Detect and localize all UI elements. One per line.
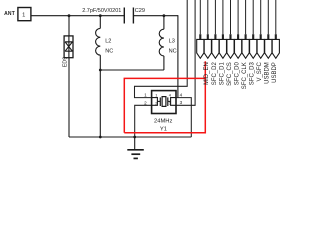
node junction L2 top <box>99 14 102 17</box>
wire down to ED9 <box>68 16 70 36</box>
node junction L2 bottom <box>99 69 102 72</box>
pin symbol 2 <box>204 39 211 58</box>
svg-text:SFC_CS: SFC_CS <box>227 62 233 86</box>
svg-text:1: 1 <box>155 93 157 98</box>
svg-text:SFC_CLK: SFC_CLK <box>242 62 248 89</box>
wire junction down to bottom wire <box>99 70 101 137</box>
wire down to L2 <box>99 16 101 29</box>
wire C29 right plate to corner <box>133 15 178 17</box>
pin symbol 8 <box>250 39 257 58</box>
connector pin row (11 pins) <box>200 0 275 39</box>
pin symbol 1 <box>197 39 204 58</box>
wire corner down to crystal pin4 lead <box>177 15 179 97</box>
pin symbol 6 <box>235 39 242 58</box>
svg-text:SFC_D0: SFC_D0 <box>235 62 241 86</box>
svg-text:ED9: ED9 <box>62 57 68 68</box>
pin symbol 5 <box>227 39 234 58</box>
wire L2 to junction <box>99 55 101 70</box>
wire XTAL line 2 from top to pin3 <box>176 0 195 105</box>
svg-text:1: 1 <box>22 12 25 18</box>
svg-text:2.7pF/50V/0201: 2.7pF/50V/0201 <box>82 8 121 14</box>
pin symbol 11 <box>272 39 279 58</box>
wire crystal pin4 to bottom wire <box>176 98 191 137</box>
inductor L2 <box>96 28 114 55</box>
svg-text:MID_EN: MID_EN <box>204 62 210 85</box>
svg-text:2: 2 <box>144 100 147 105</box>
node junction L3 top <box>163 14 166 17</box>
svg-text:V_SFC: V_SFC <box>257 62 263 82</box>
wire down to L3 <box>163 16 165 30</box>
inductor L3 <box>159 29 176 56</box>
svg-text:SFC_D3: SFC_D3 <box>250 62 256 86</box>
pin symbol 4 <box>219 39 226 58</box>
svg-text:C29: C29 <box>135 8 145 14</box>
node junction bottom wire at L2 <box>99 136 102 139</box>
svg-text:1: 1 <box>144 93 147 98</box>
wire ED9 down to bottom wire <box>68 58 70 137</box>
pin symbol 3 <box>212 39 219 58</box>
svg-text:USBDP: USBDP <box>272 62 278 83</box>
pin wires <box>200 0 275 34</box>
pin symbol 7 <box>242 39 249 58</box>
node junction at ED9 <box>68 14 71 17</box>
port P1 (ANT pad) <box>18 8 31 21</box>
wire L3 bottom <box>163 56 165 70</box>
node junction ground stem <box>133 136 136 139</box>
capacitor C29 <box>124 8 145 24</box>
svg-text:3: 3 <box>169 101 171 106</box>
pin symbol 10 <box>265 39 272 58</box>
pin stubs <box>200 34 275 39</box>
svg-text:L2: L2 <box>105 38 111 44</box>
svg-text:SFC_D2: SFC_D2 <box>212 62 218 86</box>
svg-text:4: 4 <box>180 92 183 97</box>
svg-text:NC: NC <box>105 49 113 55</box>
svg-text:24MHz: 24MHz <box>154 118 172 124</box>
svg-text:L3: L3 <box>169 38 175 44</box>
wire L2 bottom to L3 bottom <box>100 69 164 71</box>
svg-text:ANT: ANT <box>4 11 15 17</box>
svg-text:USBDM: USBDM <box>265 62 271 84</box>
pin symbol 9 <box>257 39 264 58</box>
ESD suppressor ED9 <box>64 36 73 58</box>
svg-text:3: 3 <box>180 100 183 105</box>
svg-text:SFC_D1: SFC_D1 <box>219 62 225 86</box>
svg-text:Y1: Y1 <box>160 126 167 132</box>
svg-text:2: 2 <box>155 101 157 106</box>
crystal Y1 <box>152 91 176 114</box>
svg-text:NC: NC <box>169 49 177 55</box>
bottom ground rail wire <box>69 136 191 138</box>
wire crystal pin2 to ground rail <box>135 105 152 137</box>
ground <box>127 137 144 158</box>
red annotation box <box>124 61 205 132</box>
wire XTAL line 1 from top to loop <box>135 0 188 98</box>
wire ANT to C29 left plate <box>31 15 124 17</box>
